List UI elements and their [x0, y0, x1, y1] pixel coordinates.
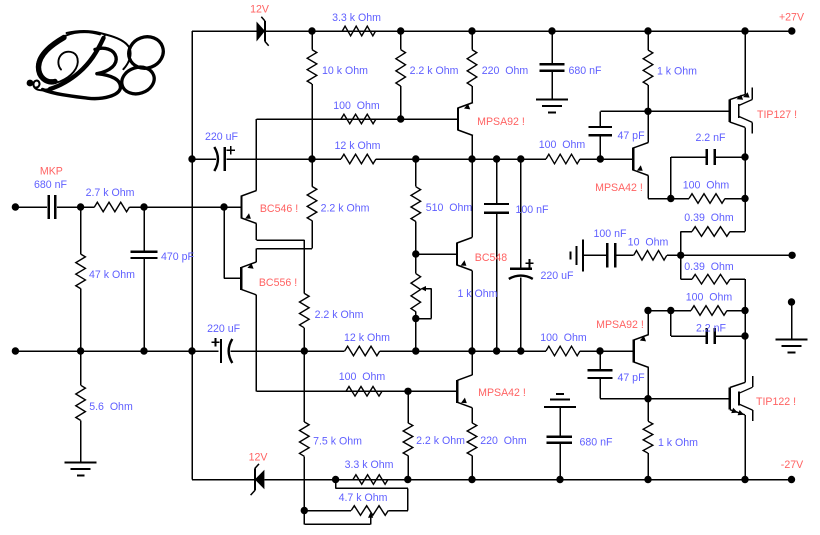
svg-text:0.39 Ohm: 0.39 Ohm [684, 212, 734, 224]
svg-text:BC548: BC548 [475, 252, 507, 264]
svg-text:12V: 12V [250, 3, 270, 15]
svg-text:BC546 !: BC546 ! [260, 203, 298, 215]
svg-text:470 pF: 470 pF [161, 251, 195, 263]
svg-text:12 k Ohm: 12 k Ohm [344, 332, 390, 344]
svg-text:220 Ohm: 220 Ohm [480, 435, 527, 447]
svg-text:100 Ohm: 100 Ohm [686, 291, 733, 303]
svg-text:100 Ohm: 100 Ohm [683, 179, 730, 191]
svg-text:TIP127 !: TIP127 ! [757, 109, 797, 121]
svg-text:100 nF: 100 nF [594, 228, 628, 240]
svg-text:2.2 nF: 2.2 nF [696, 322, 727, 334]
svg-text:47 pF: 47 pF [617, 130, 645, 142]
svg-text:4.7 k Ohm: 4.7 k Ohm [339, 492, 388, 504]
svg-text:1 k Ohm: 1 k Ohm [657, 65, 697, 77]
svg-text:220 uF: 220 uF [207, 323, 241, 335]
svg-text:47 k Ohm: 47 k Ohm [89, 269, 135, 281]
svg-text:510 Ohm: 510 Ohm [426, 202, 473, 214]
svg-text:100 Ohm: 100 Ohm [333, 100, 380, 112]
svg-text:+27V: +27V [779, 11, 805, 23]
svg-text:-27V: -27V [781, 459, 804, 471]
svg-text:12 k Ohm: 12 k Ohm [335, 140, 381, 152]
svg-text:2.2 k Ohm: 2.2 k Ohm [315, 309, 364, 321]
svg-text:MPSA42 !: MPSA42 ! [595, 182, 643, 194]
svg-text:3.3 k Ohm: 3.3 k Ohm [345, 459, 394, 471]
svg-text:100 Ohm: 100 Ohm [540, 332, 587, 344]
svg-text:2.2 nF: 2.2 nF [695, 132, 726, 144]
svg-text:2.2 k Ohm: 2.2 k Ohm [416, 435, 465, 447]
svg-text:0.39 Ohm: 0.39 Ohm [684, 261, 734, 273]
svg-text:10 Ohm: 10 Ohm [628, 237, 669, 249]
svg-text:47 pF: 47 pF [617, 372, 645, 384]
svg-text:2.7 k Ohm: 2.7 k Ohm [86, 187, 135, 199]
svg-text:100 Ohm: 100 Ohm [539, 139, 586, 151]
svg-text:TIP122 !: TIP122 ! [756, 396, 796, 408]
svg-text:3.3 k Ohm: 3.3 k Ohm [332, 12, 381, 24]
svg-text:5.6 Ohm: 5.6 Ohm [89, 401, 133, 413]
svg-text:2.2 k Ohm: 2.2 k Ohm [321, 202, 370, 214]
svg-text:MPSA42 !: MPSA42 ! [478, 387, 526, 399]
svg-text:1 k Ohm: 1 k Ohm [457, 288, 497, 300]
svg-text:220 Ohm: 220 Ohm [482, 65, 529, 77]
svg-text:680 nF: 680 nF [34, 179, 68, 191]
svg-text:MPSA92 !: MPSA92 ! [596, 319, 644, 331]
svg-text:100 Ohm: 100 Ohm [339, 371, 386, 383]
svg-text:1 k Ohm: 1 k Ohm [658, 437, 698, 449]
svg-text:680 nF: 680 nF [580, 436, 614, 448]
svg-text:220 uF: 220 uF [205, 131, 239, 143]
svg-text:12V: 12V [249, 452, 269, 464]
svg-text:BC556 !: BC556 ! [259, 277, 297, 289]
svg-text:7.5 k Ohm: 7.5 k Ohm [313, 435, 362, 447]
svg-text:MKP: MKP [40, 166, 63, 178]
svg-text:220 uF: 220 uF [541, 270, 575, 282]
svg-text:2.2 k Ohm: 2.2 k Ohm [410, 65, 459, 77]
svg-text:MPSA92 !: MPSA92 ! [477, 116, 525, 128]
svg-text:100 nF: 100 nF [516, 204, 550, 216]
svg-text:10 k Ohm: 10 k Ohm [322, 65, 368, 77]
svg-text:680 nF: 680 nF [569, 65, 603, 77]
